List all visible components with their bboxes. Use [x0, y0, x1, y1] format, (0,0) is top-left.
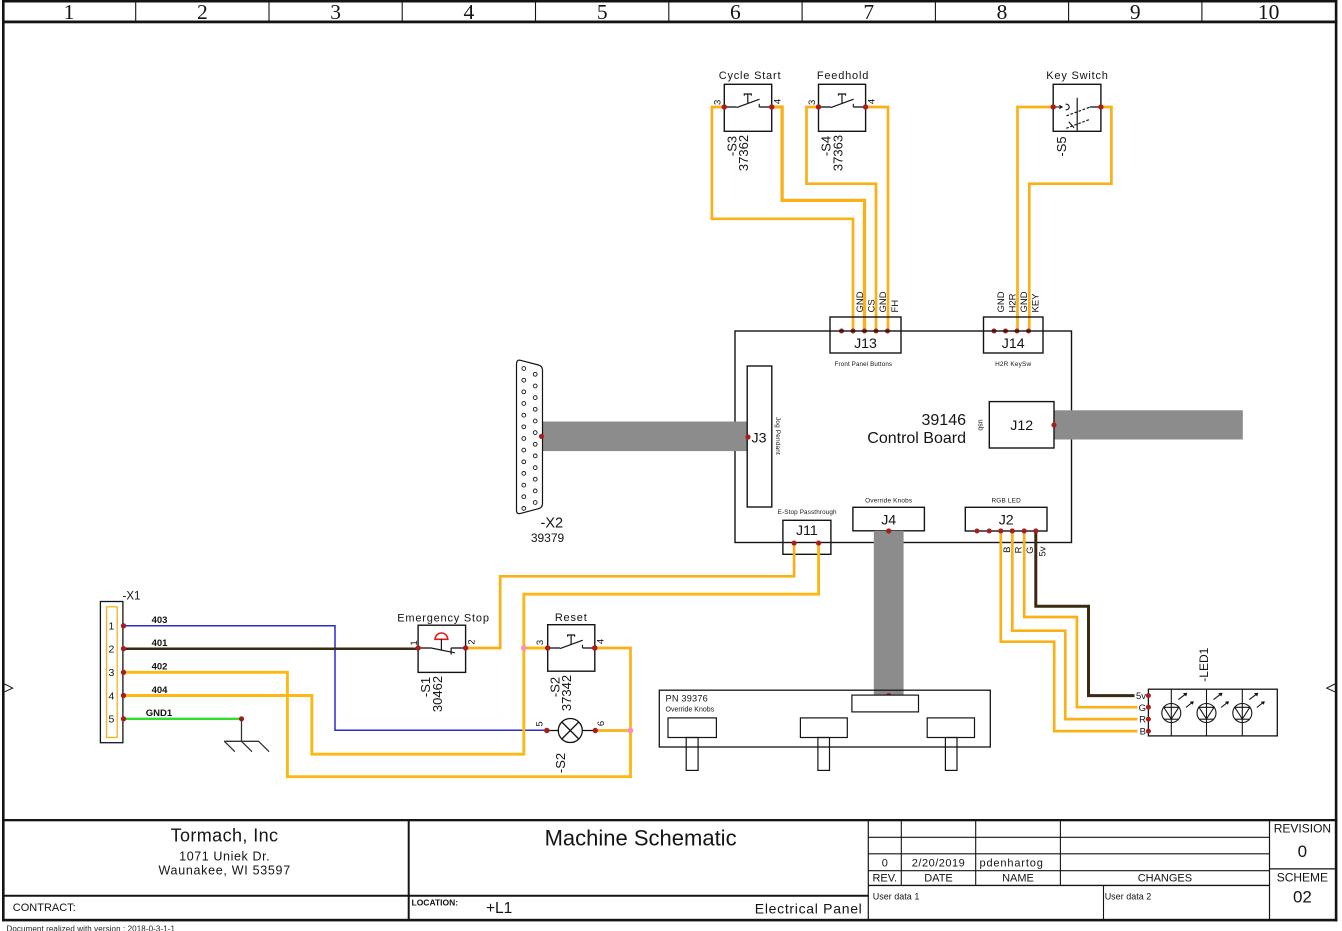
- J4 cable nodes: [886, 528, 891, 533]
- svg-text:1: 1: [64, 0, 75, 24]
- svg-text:B: B: [1140, 727, 1146, 738]
- svg-text:Document realized with version: Document realized with version : 2018-0-…: [7, 925, 176, 931]
- svg-text:3: 3: [330, 0, 341, 24]
- svg-text:LOCATION:: LOCATION:: [412, 897, 459, 907]
- svg-text:-X2: -X2: [541, 516, 564, 532]
- wire E-stop pin2 to J11 pin1: [466, 543, 794, 648]
- svg-text:Reset: Reset: [555, 612, 588, 624]
- svg-text:Electrical Panel: Electrical Panel: [755, 900, 863, 916]
- svg-text:Override Knobs: Override Knobs: [666, 706, 715, 713]
- svg-text:37362: 37362: [736, 135, 751, 171]
- svg-text:9: 9: [1130, 0, 1141, 24]
- svg-text:3: 3: [713, 100, 724, 105]
- wire S3 pin3 to J13 GND: [712, 107, 853, 331]
- wire Reset pin4 down to lamp junction: [595, 648, 631, 731]
- connector J13: [830, 291, 901, 368]
- svg-text:RGB LED: RGB LED: [991, 497, 1021, 504]
- pushbutton S4 Feedhold: [807, 70, 878, 171]
- connector J14: [984, 291, 1044, 368]
- column number strip: [136, 3, 1202, 21]
- emergency stop S1: [397, 613, 490, 712]
- connector J3: [745, 366, 781, 507]
- svg-text:J3: J3: [752, 431, 767, 447]
- title block lines: [2, 821, 1335, 919]
- svg-text:DATE: DATE: [924, 873, 953, 885]
- wire 404 (yellow) X1.4 to junction and J11 pin2: [124, 543, 819, 754]
- svg-text:H2R: H2R: [1008, 293, 1019, 312]
- svg-text:Cycle Start: Cycle Start: [719, 70, 782, 82]
- terminal block X1: [100, 591, 140, 743]
- svg-text:J2: J2: [999, 513, 1014, 529]
- LED D2: [1197, 689, 1229, 736]
- svg-text:Feedhold: Feedhold: [817, 70, 869, 82]
- svg-text:1: 1: [108, 621, 114, 633]
- svg-text:J13: J13: [854, 336, 877, 352]
- wire branch junction to Reset pin3: [524, 647, 548, 650]
- svg-text:J4: J4: [881, 513, 896, 529]
- svg-text:2: 2: [108, 644, 114, 656]
- override knob board PN 39376: [659, 690, 990, 747]
- override knob 3: [927, 718, 974, 771]
- svg-text:GND1: GND1: [146, 708, 173, 719]
- svg-text:-LED1: -LED1: [1197, 647, 1211, 681]
- left border fold arrow: [5, 684, 13, 692]
- svg-text:User data 2: User data 2: [1105, 892, 1152, 902]
- connector J4: [853, 497, 925, 531]
- svg-text:6: 6: [596, 721, 607, 726]
- junction node at reset pin3 feed: [521, 645, 527, 651]
- D-sub connector X2: [517, 360, 543, 513]
- svg-text:Override Knobs: Override Knobs: [865, 497, 912, 504]
- svg-text:7: 7: [863, 0, 874, 24]
- svg-text:-S5: -S5: [1054, 136, 1069, 156]
- connector J11: [778, 509, 837, 555]
- wire 401 (dark) X1.2 to E-stop pin1: [124, 647, 419, 650]
- svg-text:REV.: REV.: [872, 873, 897, 885]
- svg-text:NAME: NAME: [1002, 873, 1034, 885]
- svg-text:J11: J11: [796, 523, 818, 539]
- svg-text:5v: 5v: [1136, 691, 1146, 702]
- svg-text:1: 1: [409, 640, 420, 645]
- ribbon cable J4 to override knob board: [874, 531, 904, 696]
- svg-text:30462: 30462: [430, 676, 445, 712]
- override knob 2: [800, 718, 847, 771]
- connector J12: [976, 402, 1056, 448]
- svg-text:2: 2: [197, 0, 208, 24]
- svg-text:Tormach, Inc: Tormach, Inc: [171, 825, 279, 845]
- svg-text:CS: CS: [867, 299, 878, 312]
- LED D1: [1162, 689, 1194, 736]
- ground node: [239, 716, 244, 721]
- svg-text:37363: 37363: [830, 135, 845, 171]
- board title 39146 Control Board: [867, 412, 966, 447]
- ribbon cable J12 to edge: [1054, 410, 1243, 439]
- svg-text:J12: J12: [1010, 418, 1033, 434]
- svg-text:4: 4: [773, 99, 784, 104]
- svg-text:H2R KeySw: H2R KeySw: [995, 361, 1031, 368]
- svg-text:-S2: -S2: [553, 753, 568, 773]
- svg-text:Machine Schematic: Machine Schematic: [545, 826, 737, 851]
- svg-text:Front Panel Buttons: Front Panel Buttons: [835, 361, 893, 368]
- svg-text:02: 02: [1293, 888, 1312, 907]
- svg-text:Key Switch: Key Switch: [1046, 70, 1108, 82]
- svg-text:403: 403: [152, 615, 168, 626]
- svg-text:5: 5: [597, 0, 608, 24]
- ribbon cable X2 to J3: [540, 422, 747, 452]
- svg-text:User data 1: User data 1: [873, 892, 920, 902]
- svg-text:GND: GND: [1019, 291, 1030, 312]
- svg-text:37342: 37342: [559, 675, 574, 711]
- svg-text:REVISION: REVISION: [1274, 822, 1331, 836]
- svg-text:KEY: KEY: [1031, 293, 1042, 313]
- svg-text:3: 3: [535, 640, 546, 645]
- svg-text:5: 5: [108, 714, 114, 726]
- svg-text:-X1: -X1: [123, 591, 141, 603]
- svg-text:Emergency Stop: Emergency Stop: [397, 613, 490, 625]
- LED module LED1: [1135, 647, 1278, 737]
- svg-text:CHANGES: CHANGES: [1138, 873, 1192, 885]
- connector J2: [965, 497, 1048, 556]
- svg-text:4: 4: [464, 0, 475, 24]
- svg-text:0: 0: [1298, 842, 1307, 861]
- svg-text:5: 5: [535, 721, 546, 726]
- svg-text:2: 2: [466, 639, 477, 644]
- svg-text:Control Board: Control Board: [867, 430, 966, 447]
- svg-text:J14: J14: [1002, 336, 1025, 352]
- svg-text:Jog Pendant: Jog Pendant: [774, 417, 781, 455]
- wire GND1 (green): [124, 718, 242, 720]
- svg-text:0: 0: [882, 858, 888, 870]
- svg-text:2/20/2019: 2/20/2019: [912, 858, 965, 870]
- indicator lamp S2: [535, 719, 607, 774]
- right border fold arrow: [1327, 684, 1335, 692]
- svg-text:5v: 5v: [1037, 546, 1048, 556]
- wire S5 left pin to J14 GND: [1018, 107, 1054, 331]
- svg-text:GND: GND: [878, 291, 889, 312]
- pushbutton S2 Reset: [535, 612, 607, 711]
- wire lamp pin6 to junction: [595, 729, 630, 732]
- control board outline: [735, 331, 1072, 543]
- svg-text:G: G: [1139, 703, 1146, 714]
- wire J2 5v to LED1 (dark): [1036, 531, 1149, 696]
- svg-text:usb: usb: [976, 419, 983, 430]
- svg-text:4: 4: [866, 99, 877, 104]
- override knob 1: [668, 718, 716, 771]
- wire J2 B to LED1: [1001, 531, 1149, 731]
- svg-text:404: 404: [152, 685, 169, 696]
- svg-text:401: 401: [152, 638, 169, 649]
- svg-text:FH: FH: [890, 300, 901, 313]
- wire J2 G to LED1: [1024, 531, 1148, 707]
- title block text: [7, 822, 1332, 931]
- wire 403 (blue) X1.1 to lamp pin5: [124, 626, 547, 730]
- svg-text:1071 Uniek Dr.: 1071 Uniek Dr.: [179, 850, 270, 864]
- D-sub X2 pin holes: [522, 367, 537, 511]
- key switch S5: [1046, 70, 1108, 157]
- pushbutton S3 Cycle Start: [713, 70, 784, 171]
- svg-text:GND: GND: [996, 291, 1007, 312]
- wire J2 R to LED1: [1012, 531, 1148, 719]
- wire 402 (yellow) X1.3 to lamp junction: [124, 672, 631, 776]
- svg-text:39379: 39379: [531, 531, 565, 545]
- svg-text:R: R: [1139, 715, 1146, 726]
- svg-text:SCHEME: SCHEME: [1277, 871, 1328, 885]
- svg-text:6: 6: [730, 0, 741, 24]
- wire S4 pin3 to J13 GND: [807, 107, 877, 331]
- svg-text:Waunakee, WI 53597: Waunakee, WI 53597: [159, 864, 291, 878]
- wire S3 pin4 to J13 CS: [772, 107, 865, 331]
- ground symbol: [224, 719, 269, 752]
- svg-text:39146: 39146: [922, 412, 967, 429]
- svg-text:3: 3: [108, 667, 114, 679]
- wire S5 right pin to J14 KEY: [1029, 107, 1111, 331]
- wire S4 pin4 to J13 FH: [866, 107, 888, 331]
- svg-text:8: 8: [997, 0, 1008, 24]
- junction node at lamp pin6 feed: [628, 728, 634, 734]
- svg-text:pdenhartog: pdenhartog: [980, 858, 1044, 870]
- svg-text:E-Stop Passthrough: E-Stop Passthrough: [778, 509, 837, 516]
- svg-text:PN 39376: PN 39376: [666, 693, 708, 703]
- connection nodes overlay: [121, 529, 1038, 722]
- svg-text:10: 10: [1258, 0, 1280, 24]
- svg-text:GND: GND: [855, 291, 866, 312]
- X2 cable entry node: [539, 434, 544, 439]
- svg-text:4: 4: [108, 690, 114, 702]
- svg-text:CONTRACT:: CONTRACT:: [13, 902, 76, 914]
- svg-text:+L1: +L1: [486, 900, 512, 917]
- svg-text:4: 4: [596, 639, 607, 644]
- LED D3: [1233, 689, 1265, 736]
- svg-text:402: 402: [152, 662, 168, 673]
- svg-text:3: 3: [807, 100, 818, 105]
